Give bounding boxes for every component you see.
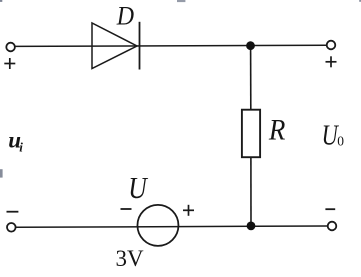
wire vertical from top node to resistor [250, 46, 252, 109]
wire vertical from resistor to bottom node [250, 158, 252, 226]
svg-text:D: D [116, 3, 134, 31]
svg-text:i: i [19, 140, 23, 155]
node top junction dot [246, 41, 255, 50]
wire bottom rail [16, 226, 327, 227]
scan artifact top edge dash [177, 0, 185, 2]
node bottom junction dot [247, 222, 256, 231]
svg-text:0: 0 [337, 134, 344, 149]
svg-text:U: U [128, 172, 148, 206]
scan artifact left edge strip [0, 169, 3, 177]
plus sign top-right [326, 56, 337, 67]
resistor R body [242, 110, 260, 158]
svg-text:3V: 3V [116, 246, 145, 271]
terminal bottom-right [328, 222, 337, 231]
voltage source plus sign [183, 205, 194, 216]
terminal top-right [327, 41, 336, 50]
scan artifact top-right corner [359, 0, 361, 2]
terminal bottom-left [7, 223, 16, 232]
diode D triangle [92, 23, 137, 69]
scan artifact top-left corner [0, 0, 2, 2]
svg-text:R: R [268, 114, 285, 147]
minus sign bottom-right [325, 208, 335, 210]
voltage source U circle [137, 205, 178, 246]
terminal top-left [6, 43, 15, 52]
wire top rail [15, 45, 326, 46]
voltage source minus sign [121, 208, 132, 210]
plus sign top-left [4, 58, 15, 69]
diode D cathode bar [139, 22, 141, 70]
minus sign bottom-left [7, 211, 19, 213]
